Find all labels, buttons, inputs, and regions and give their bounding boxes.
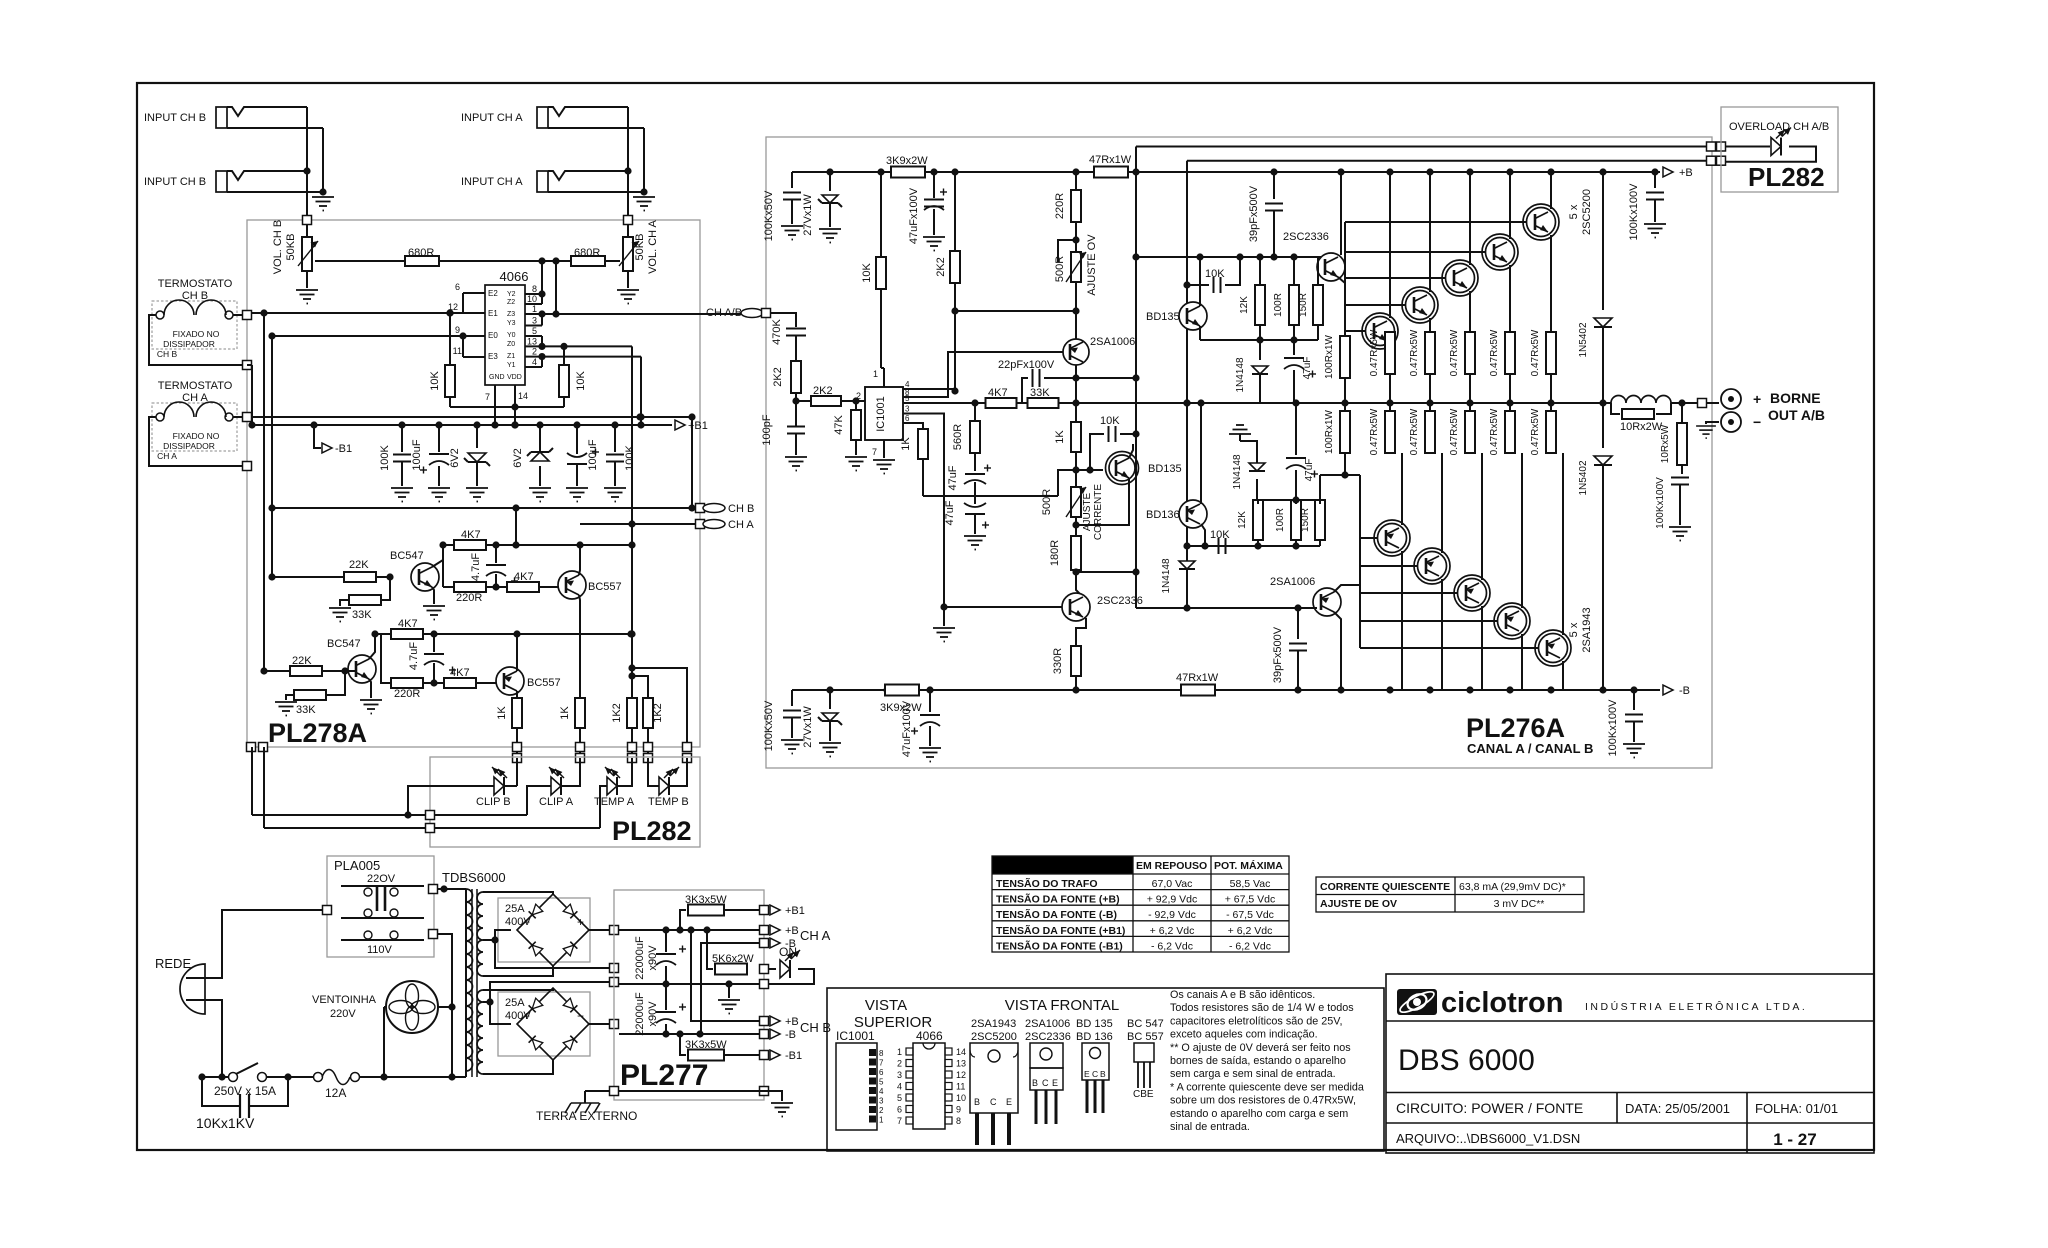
svg-text:Z2: Z2 (507, 299, 515, 306)
svg-text:7: 7 (485, 392, 490, 402)
svg-text:5 x: 5 x (1568, 622, 1580, 637)
svg-text:+B: +B (785, 1016, 799, 1028)
svg-text:−: − (577, 1009, 584, 1023)
wire x272 column (271, 336, 273, 577)
svg-text:2: 2 (879, 1106, 884, 1115)
selector mid row (341, 917, 424, 919)
ground borne (1706, 422, 1719, 424)
svg-text:10K: 10K (575, 371, 587, 391)
svg-text:14: 14 (518, 391, 528, 401)
svg-text:TENSÃO DA FONTE (+B): TENSÃO DA FONTE (+B) (996, 893, 1120, 906)
svg-text:CH B: CH B (728, 503, 754, 515)
4066 GND VDD pins (494, 385, 496, 425)
bridge rectifier 1 (498, 898, 590, 962)
svg-text:1N5402: 1N5402 (1578, 460, 1589, 495)
wire transformer sec to bridge1 (483, 892, 553, 895)
svg-text:B: B (1100, 1069, 1106, 1079)
wire fuse to transformer (359, 1076, 466, 1078)
svg-text:6: 6 (455, 282, 460, 292)
svg-text:4066: 4066 (916, 1029, 943, 1043)
emitter resistors 0.47R bottom row (1385, 411, 1395, 453)
resistor 33K ic out (1028, 398, 1059, 408)
wire TEMP B feed (632, 668, 687, 743)
LED TEMP B (659, 777, 669, 795)
cap 10K mid (1075, 452, 1077, 470)
svg-text:0.47Rx5W: 0.47Rx5W (1489, 329, 1500, 376)
wire bridge1 + to PL277 (589, 929, 610, 931)
svg-text:0.47Rx5W: 0.47Rx5W (1369, 329, 1380, 376)
svg-text:REDE: REDE (155, 956, 191, 971)
wire 680R A to pot (604, 260, 620, 262)
resistor 22K #1 (344, 572, 376, 582)
resistor 680R B (405, 256, 439, 266)
svg-text:Os canais A e B são idênticos.: Os canais A e B são idênticos. (1170, 989, 1315, 1001)
svg-text:CLIP B: CLIP B (476, 796, 511, 808)
resistor 47K (851, 410, 861, 440)
svg-text:6V2: 6V2 (512, 448, 524, 468)
svg-text:ARQUIVO:..\DBS6000_V1.DSN: ARQUIVO:..\DBS6000_V1.DSN (1396, 1131, 1580, 1146)
cap 100Kx100V zobel (1681, 465, 1683, 474)
svg-text:5: 5 (879, 1078, 884, 1087)
svg-text:2K2: 2K2 (813, 385, 833, 397)
diode 1N4148 lower (1183, 604, 1190, 611)
svg-text:0.47Rx5W: 0.47Rx5W (1369, 408, 1380, 455)
thermostat CH A wires (233, 416, 243, 418)
svg-text:+ 67,5 Vdc: + 67,5 Vdc (1225, 894, 1276, 906)
svg-text:BD 135: BD 135 (1076, 1018, 1113, 1030)
svg-text:22000uF: 22000uF (634, 936, 646, 980)
wire center taps to PL277 (495, 930, 610, 968)
wire terra line (585, 1090, 760, 1092)
cap 39pF top (1273, 172, 1275, 199)
wire CH B line (272, 507, 699, 509)
arrow -B1 (314, 425, 321, 448)
wire B2 bias line (1187, 545, 1320, 547)
svg-text:1 - 27: 1 - 27 (1773, 1130, 1816, 1149)
svg-text:330R: 330R (1052, 648, 1064, 674)
svg-text:CANAL A / CANAL B: CANAL A / CANAL B (1467, 741, 1593, 756)
svg-text:5: 5 (532, 326, 537, 336)
svg-text:TENSÃO DA FONTE (-B): TENSÃO DA FONTE (-B) (996, 908, 1117, 921)
svg-text:E3: E3 (488, 352, 498, 361)
svg-text:250V x 15A: 250V x 15A (214, 1084, 276, 1098)
BC547 #1 collector (432, 545, 443, 567)
BC557 #1 emitter to line (579, 545, 580, 575)
BC557 #1 collector down (579, 595, 580, 698)
svg-text:EM REPOUSO: EM REPOUSO (1136, 860, 1207, 872)
svg-text:4K7: 4K7 (514, 571, 534, 583)
svg-text:VENTOINHA: VENTOINHA (312, 994, 377, 1006)
svg-text:100R: 100R (1273, 293, 1284, 317)
svg-text:47uFx100V: 47uFx100V (908, 187, 920, 244)
bias resistors bottom (1253, 500, 1263, 540)
svg-text:PL282: PL282 (612, 816, 692, 846)
cap 100Kx50V bottom (791, 690, 793, 706)
svg-text:8: 8 (879, 1049, 884, 1058)
diode 1N5402 top (1602, 172, 1604, 310)
cap 100Kx50V top (791, 172, 793, 188)
svg-text:5K6x2W: 5K6x2W (712, 953, 754, 965)
svg-text:+B1: +B1 (785, 905, 805, 917)
svg-text:25A: 25A (505, 997, 525, 1009)
resistor 3K9x2W bottom (885, 685, 919, 696)
svg-text:150R: 150R (1298, 293, 1309, 317)
cap 100uF #1 (438, 425, 440, 452)
svg-text:3K3x5W: 3K3x5W (685, 1039, 727, 1051)
cap 4.7uF #2 (433, 634, 435, 652)
wire 4K7 line CH A group (375, 633, 631, 635)
svg-text:47Rx1W: 47Rx1W (1176, 672, 1219, 684)
svg-text:47uF: 47uF (1302, 357, 1313, 380)
wire B1 bias line (1257, 499, 1320, 501)
svg-text:2SA1006: 2SA1006 (1025, 1018, 1070, 1030)
svg-text:8: 8 (532, 284, 537, 294)
wire jack A sleeve bus (643, 128, 645, 192)
svg-text:12A: 12A (325, 1086, 346, 1100)
svg-text:AJUSTE OV: AJUSTE OV (1086, 234, 1098, 296)
input jack CH B lower (216, 171, 227, 192)
svg-text:+ 6,2 Vdc: + 6,2 Vdc (1228, 925, 1273, 937)
svg-text:Todos resistores são de 1/4 W: Todos resistores são de 1/4 W e todos (1170, 1002, 1354, 1014)
svg-text:POT. MÁXIMA: POT. MÁXIMA (1214, 859, 1283, 872)
svg-text:3K3x5W: 3K3x5W (685, 894, 727, 906)
svg-text:10K: 10K (1210, 529, 1230, 541)
svg-text:BD135: BD135 (1146, 311, 1180, 323)
output inductor (1611, 396, 1671, 403)
svg-text:6: 6 (879, 1068, 884, 1077)
transistor BD135 mid (1109, 455, 1135, 481)
resistor 3K3x5W bottom (680, 1034, 686, 1055)
svg-text:DATA: 25/05/2001: DATA: 25/05/2001 (1625, 1101, 1730, 1116)
wire CH A col down (631, 390, 633, 676)
arrow -B bottom (1663, 685, 1673, 695)
svg-text:C: C (1092, 1069, 1098, 1079)
resistor 10Rx5W (1681, 403, 1683, 423)
selector 220V row (341, 885, 424, 887)
svg-text:1K: 1K (559, 706, 571, 720)
wire REDE bottom to switch (205, 1000, 229, 1077)
cap 100pF (792, 397, 799, 404)
svg-text:CH A: CH A (157, 451, 177, 461)
cap 22000uF #2 (665, 984, 667, 1010)
wire mid drive line (914, 402, 1611, 404)
svg-text:12: 12 (956, 1070, 966, 1080)
svg-text:4K7: 4K7 (461, 529, 481, 541)
resistor 3K9x2W top (891, 167, 925, 178)
cap 100Kx100V top right (1654, 172, 1656, 188)
wire T1 bias line (1136, 256, 1325, 258)
svg-text:E0: E0 (488, 331, 498, 340)
svg-text:0.47Rx5W: 0.47Rx5W (1449, 329, 1460, 376)
pot VOL CH A 50KB (623, 237, 633, 271)
svg-text:11: 11 (453, 346, 462, 356)
svg-text:10: 10 (956, 1093, 966, 1103)
connector squares PL278A bottom (513, 743, 522, 752)
wire pin8 to driver base (914, 352, 1070, 397)
svg-text:3: 3 (532, 316, 537, 326)
svg-text:DBS 6000: DBS 6000 (1398, 1044, 1535, 1077)
wire x1136 column (1135, 147, 1137, 379)
svg-text:10Rx2W: 10Rx2W (1620, 421, 1663, 433)
svg-text:100Kx100V: 100Kx100V (1655, 477, 1666, 529)
resistor 47Rx1W top (1094, 167, 1128, 178)
svg-text:220R: 220R (394, 688, 420, 700)
transistor BC547 #2 (348, 655, 376, 683)
resistor 1K #1 (512, 698, 522, 728)
svg-text:sobre um dos resistores de 0: sobre um dos resistores de 0.47Rx5W, (1170, 1095, 1356, 1107)
svg-text:27Vx1W: 27Vx1W (802, 706, 814, 748)
cap 10Kx1KV (202, 1077, 240, 1106)
svg-text:B: B (974, 1097, 980, 1107)
svg-text:560R: 560R (952, 424, 964, 450)
svg-text:ciclotron: ciclotron (1441, 987, 1563, 1019)
svg-text:47uF: 47uF (944, 500, 956, 525)
svg-text:VISTA: VISTA (865, 997, 907, 1014)
svg-text:Y0: Y0 (507, 332, 516, 339)
switch 250V x 15A (202, 1076, 225, 1078)
LED CLIP A (551, 777, 561, 795)
svg-text:4066: 4066 (500, 269, 529, 284)
wire 4K7 line CH B group (443, 544, 632, 546)
svg-text:33K: 33K (296, 704, 316, 716)
resistor 180R (1075, 517, 1077, 535)
svg-text:PL277: PL277 (620, 1059, 708, 1092)
cap 47uF bottom bias (1295, 403, 1297, 455)
resistor 10K left of 4066 (445, 365, 455, 397)
svg-text:CH B: CH B (182, 290, 208, 302)
svg-text:11: 11 (956, 1082, 965, 1092)
svg-text:220V: 220V (330, 1008, 356, 1020)
svg-text:-B1: -B1 (335, 443, 352, 455)
transistor 2SA1006 bottom driver (1313, 588, 1341, 616)
transistor BD136 (1179, 500, 1207, 528)
svg-text:−: − (1753, 414, 1761, 430)
svg-text:DISSIPADOR: DISSIPADOR (163, 441, 215, 451)
wire -B rail PL277 (619, 1033, 760, 1035)
overload sense line top (1136, 146, 1706, 148)
svg-text:100uF: 100uF (411, 439, 423, 470)
svg-text:14: 14 (956, 1047, 966, 1057)
svg-text:FIXADO NO: FIXADO NO (173, 431, 220, 441)
BC547 #2 collector (369, 634, 375, 659)
cap 47uFx100V bottom (929, 690, 931, 712)
cap 100K #2 (614, 425, 616, 452)
svg-text:13: 13 (527, 336, 537, 346)
svg-text:33K: 33K (1030, 387, 1050, 399)
resistor 680R A (571, 256, 605, 266)
svg-text:3 mV DC**: 3 mV DC** (1494, 898, 1545, 910)
svg-text:x90V: x90V (647, 1001, 659, 1027)
svg-text:PL278A: PL278A (268, 718, 367, 748)
PL282 overload box (1721, 107, 1838, 192)
svg-text:TERMOSTATO: TERMOSTATO (158, 380, 233, 392)
wire jack B tip bus (306, 107, 308, 238)
cap 10K bottom bias (1219, 538, 1226, 554)
cap 22000uF #1 (665, 930, 667, 952)
svg-text:* A corrente quiescente deve s: * A corrente quiescente deve ser medida (1170, 1081, 1364, 1093)
svg-text:12K: 12K (1239, 296, 1250, 314)
resistor 2K2 horizontal (811, 396, 841, 406)
svg-text:BD 136: BD 136 (1076, 1031, 1113, 1043)
svg-text:E: E (1052, 1078, 1058, 1088)
svg-text:2SA1006: 2SA1006 (1090, 336, 1135, 348)
svg-text:sinal de entrada.: sinal de entrada. (1170, 1121, 1250, 1133)
cap 22pF (1022, 378, 1028, 403)
svg-text:47K: 47K (833, 415, 845, 435)
svg-text:500R: 500R (1054, 256, 1066, 282)
svg-text:PLA005: PLA005 (334, 858, 380, 873)
wire NPN base bus (1344, 222, 1346, 336)
svg-text:AJUSTE: AJUSTE (1082, 493, 1093, 532)
svg-text:CH A/B: CH A/B (706, 307, 742, 319)
svg-text:TERRA EXTERNO: TERRA EXTERNO (536, 1109, 637, 1123)
svg-text:CH B: CH B (157, 349, 178, 359)
wire 4066 Z0 out (542, 345, 632, 347)
resistor 1K #2 (575, 698, 585, 728)
wire E0 line (272, 335, 485, 337)
PL277 block box (614, 890, 764, 1100)
wire thermostato vertical runs (263, 313, 265, 672)
svg-text:- 6,2 Vdc: - 6,2 Vdc (1151, 940, 1193, 952)
resistor 4K7 #2 (507, 582, 539, 592)
svg-text:3: 3 (905, 405, 910, 414)
svg-text:100Kx50V: 100Kx50V (763, 190, 775, 241)
svg-text:3: 3 (879, 1097, 884, 1106)
svg-text:10K: 10K (1100, 415, 1120, 427)
resistor 1K mid (1075, 403, 1077, 422)
svg-text:B: B (1032, 1078, 1038, 1088)
svg-text:VISTA FRONTAL: VISTA FRONTAL (1005, 997, 1119, 1014)
svg-text:INPUT CH A: INPUT CH A (461, 176, 523, 188)
svg-text:ON: ON (779, 945, 797, 959)
svg-text:67,0 Vac: 67,0 Vac (1152, 878, 1193, 890)
svg-text:Y3: Y3 (507, 320, 516, 327)
PLA005 selector box (327, 856, 434, 957)
svg-text:470K: 470K (771, 318, 783, 344)
LED CLIP B (494, 777, 504, 795)
overload sense line bottom (1187, 160, 1706, 162)
svg-text:- 6,2 Vdc: - 6,2 Vdc (1229, 940, 1271, 952)
transistor 2SC2336 top driver (1317, 253, 1345, 281)
svg-text:4K7: 4K7 (450, 667, 470, 679)
svg-text:1K: 1K (496, 706, 508, 720)
zener 27Vx1W bottom (829, 690, 831, 709)
svg-text:sem carga e sem sinal de entra: sem carga e sem sinal de entrada. (1170, 1068, 1336, 1080)
svg-text:33K: 33K (352, 609, 372, 621)
svg-text:TDBS6000: TDBS6000 (442, 870, 506, 885)
svg-text:6V2: 6V2 (449, 448, 461, 468)
resistor 4K7 #3 (391, 629, 423, 639)
wire PNP base bus (1359, 475, 1361, 648)
resistor 10K col top (880, 172, 882, 257)
svg-text:47uF: 47uF (1304, 459, 1315, 482)
wire mid rail PL277 (619, 983, 760, 985)
svg-text:CH A: CH A (800, 928, 831, 943)
border frame (137, 83, 1874, 1150)
transistor BC557 #1 (558, 571, 586, 599)
selector 110V row (341, 939, 424, 941)
wire CH A line (580, 523, 699, 525)
wire E1 line (247, 312, 485, 314)
ground input A (633, 197, 655, 211)
svg-text:+: + (577, 915, 584, 929)
terra externo symbol (584, 1091, 586, 1103)
svg-text:4K7: 4K7 (398, 618, 418, 630)
svg-text:1K: 1K (900, 437, 912, 451)
svg-text:7: 7 (872, 447, 877, 457)
svg-text:2: 2 (897, 1059, 902, 1069)
wire pin4 to 2K2 col (914, 389, 955, 391)
svg-text:+B1: +B1 (688, 420, 708, 432)
cap 4.7uF #1 (495, 545, 497, 563)
svg-text:4: 4 (897, 1082, 902, 1092)
resistor 33K #1 (349, 595, 381, 605)
svg-text:BD136: BD136 (1146, 509, 1180, 521)
transistor BD135 top bias (1179, 302, 1207, 330)
wire pin6 to 1K (914, 423, 923, 429)
svg-text:DISSIPADOR: DISSIPADOR (163, 339, 215, 349)
svg-text:3K9x2W: 3K9x2W (886, 155, 928, 167)
svg-text:4.7uF: 4.7uF (408, 642, 420, 670)
svg-text:CBE: CBE (1133, 1089, 1154, 1100)
wire x516 column (515, 508, 517, 545)
svg-text:+ 6,2 Vdc: + 6,2 Vdc (1150, 925, 1195, 937)
wire bottom rail (792, 689, 1182, 691)
svg-text:C: C (990, 1097, 997, 1107)
svg-text:E2: E2 (488, 289, 498, 298)
svg-text:0.47Rx5W: 0.47Rx5W (1409, 408, 1420, 455)
svg-text:500R: 500R (1041, 489, 1053, 515)
svg-text:TERMOSTATO: TERMOSTATO (158, 278, 233, 290)
svg-text:1N5402: 1N5402 (1578, 322, 1589, 357)
resistor 4K7 #1 (454, 540, 486, 550)
wire pot B wiper (315, 260, 406, 262)
svg-text:-B: -B (785, 1029, 796, 1041)
svg-text:150R: 150R (1300, 508, 1311, 532)
svg-text:1: 1 (873, 369, 878, 379)
svg-text:220R: 220R (1054, 193, 1066, 219)
svg-text:E: E (1084, 1069, 1090, 1079)
wire +B1 rail (252, 424, 672, 426)
svg-text:2SA1943: 2SA1943 (1581, 607, 1593, 652)
svg-text:2: 2 (532, 347, 537, 357)
svg-text:estando o aparelho com carga: estando o aparelho com carga e sem (1170, 1108, 1348, 1120)
wire bottom drive line (1136, 607, 1317, 609)
resistor 47Rx1W bottom (1181, 685, 1215, 696)
svg-text:TENSÃO DA FONTE (-B1): TENSÃO DA FONTE (-B1) (996, 939, 1123, 952)
svg-text:+: + (1753, 391, 1761, 407)
svg-text:22K: 22K (292, 655, 312, 667)
svg-text:Z0: Z0 (507, 341, 515, 348)
svg-text:6: 6 (897, 1105, 902, 1115)
svg-text:- 67,5 Vdc: - 67,5 Vdc (1226, 909, 1274, 921)
svg-text:2SC5200: 2SC5200 (1581, 189, 1593, 235)
arrow +B CH B (760, 1017, 769, 1026)
svg-text:5: 5 (897, 1093, 902, 1103)
svg-text:Y1: Y1 (507, 362, 516, 369)
svg-text:- 92,9 Vdc: - 92,9 Vdc (1148, 909, 1196, 921)
svg-text:100Kx100V: 100Kx100V (1628, 183, 1640, 241)
svg-text:100Kx100V: 100Kx100V (1607, 699, 1619, 757)
svg-text:7: 7 (879, 1059, 884, 1068)
ground pot A (627, 271, 629, 288)
svg-text:TENSÃO DA FONTE (+B1): TENSÃO DA FONTE (+B1) (996, 924, 1125, 937)
svg-text:1K: 1K (1054, 430, 1066, 444)
LED TEMP A (607, 777, 617, 795)
svg-text:PL276A: PL276A (1466, 713, 1565, 743)
zener 6V2 #1 (476, 425, 478, 448)
svg-text:BC557: BC557 (588, 581, 622, 593)
